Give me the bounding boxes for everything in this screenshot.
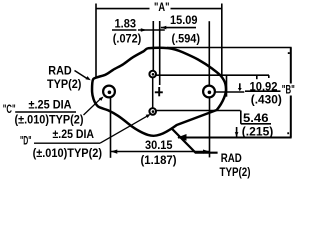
- svg-text:"B": "B": [282, 82, 295, 96]
- dim 1.83 extension line through package center: [159, 21, 161, 85]
- B tick bottom: [287, 132, 289, 134]
- arrow B bottom stub: [177, 134, 186, 141]
- svg-text:5.46: 5.46: [243, 111, 269, 125]
- arrow D leader: [146, 114, 151, 118]
- pin 2 center dot: [152, 110, 155, 113]
- arrow 1.83: [141, 28, 147, 32]
- svg-text:"D": "D": [20, 134, 32, 148]
- arrow RAD top leader: [86, 76, 91, 80]
- dim B top stub: [167, 47, 292, 49]
- arrow 10.92 down: [238, 88, 242, 91]
- pin 2 reference line: [156, 110, 240, 112]
- dim 10.92 fraction bar: [245, 90, 281, 92]
- dim 30.15 left extension: [110, 98, 112, 158]
- dim A right tick/extension: [221, 4, 223, 78]
- pin connecting line: [152, 78, 154, 108]
- dim C fraction bar: [15, 111, 76, 113]
- svg-text:(1.187): (1.187): [141, 153, 177, 167]
- dim B bottom stub: [178, 137, 292, 139]
- dim A left tick/extension: [95, 4, 97, 79]
- package outline (TO-3 flange): [92, 48, 226, 136]
- mounting hole left: [103, 86, 115, 98]
- dim 15.09 fraction bar: [161, 27, 196, 29]
- dim 1.83 arrow line: [138, 29, 165, 31]
- pin 1 hole: [149, 71, 156, 78]
- mounting hole right: [203, 86, 215, 98]
- B tick top: [288, 52, 290, 54]
- leader C: [84, 98, 102, 115]
- svg-text:(.594): (.594): [172, 32, 201, 46]
- svg-text:(.072): (.072): [113, 32, 142, 46]
- svg-text:TYP(2): TYP(2): [47, 77, 81, 91]
- arrow 30.15 left: [111, 150, 118, 154]
- dim D fraction bar: [34, 142, 100, 144]
- pin 1 reference line: [156, 74, 269, 76]
- svg-text:"A": "A": [154, 0, 170, 14]
- dim 15.09 right extension line: [208, 21, 210, 85]
- svg-text:(±.010)TYP(2): (±.010)TYP(2): [15, 113, 84, 127]
- leader RAD bottom-right: [172, 129, 218, 153]
- svg-text:TYP(2): TYP(2): [220, 165, 251, 179]
- arrow 5.46 down: [235, 132, 239, 137]
- leader RAD top-left: [75, 71, 88, 79]
- dim 5.46 fraction bar: [241, 123, 271, 125]
- arrow 30.15 right: [203, 150, 209, 154]
- center cross: [155, 87, 163, 96]
- svg-text:(.430): (.430): [251, 92, 282, 106]
- svg-text:(±.010)TYP(2): (±.010)TYP(2): [33, 146, 102, 160]
- svg-text:1.83: 1.83: [115, 16, 137, 30]
- dim 30.15 dimension line: [111, 151, 209, 153]
- dim 10.92 extension at corner: [226, 75, 228, 97]
- svg-text:±.25 DIA: ±.25 DIA: [29, 98, 72, 112]
- pin 2 hole: [149, 108, 156, 115]
- white knockouts: [150, 1, 296, 96]
- svg-text:15.09: 15.09: [170, 13, 198, 27]
- dim 10.92 arrow tick: [239, 83, 241, 88]
- tick at pin 1 line end: [268, 75, 270, 78]
- svg-text:(.215): (.215): [242, 125, 273, 139]
- dim 30.15 right extension: [209, 98, 211, 158]
- svg-text:10.92: 10.92: [250, 79, 278, 93]
- mounting hole left center dot: [108, 91, 112, 95]
- dim 5.46 down connector: [236, 127, 238, 137]
- dim 1.83 fraction bar: [112, 29, 136, 31]
- mounting hole reference line: [215, 91, 245, 93]
- mounting hole right center dot: [208, 91, 212, 95]
- dim A line: [96, 8, 222, 10]
- tick below pin 1 line: [256, 75, 258, 79]
- arrowheads: [86, 26, 290, 154]
- dim 1.83 extension line through pin center: [152, 21, 154, 71]
- arrow C leader: [99, 97, 104, 101]
- dim B vertical line: [290, 48, 292, 138]
- svg-text:RAD: RAD: [48, 64, 72, 78]
- svg-text:±.25 DIA: ±.25 DIA: [53, 127, 95, 141]
- arrow 15.09 left: [161, 26, 166, 30]
- svg-text:30.15: 30.15: [145, 138, 173, 152]
- svg-text:RAD: RAD: [221, 151, 242, 165]
- pin 2 line step tick: [240, 111, 242, 124]
- leader D: [100, 116, 147, 143]
- pin 1 center dot: [152, 73, 155, 76]
